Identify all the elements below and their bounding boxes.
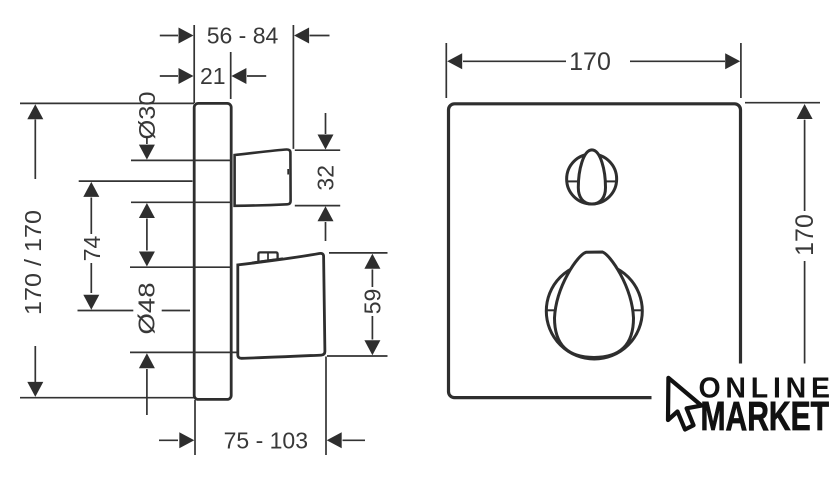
svg-text:Ø30: Ø30 <box>134 92 160 140</box>
select knob (front view, small) <box>566 150 617 204</box>
wire: Ø48 lower arrow shaft <box>146 369 148 415</box>
wire: 170/170 upper shaft <box>34 120 36 180</box>
arrowhead 170/170 down <box>27 382 43 397</box>
dimension 32 <box>295 113 340 241</box>
svg-text:75 - 103: 75 - 103 <box>224 427 308 453</box>
arrowhead Ø48 up (below span) <box>139 353 155 368</box>
wire: shaft between Ø30 and Ø48 arrows <box>146 219 148 251</box>
wire: 21 left arrow shaft <box>160 75 178 77</box>
small knob egg grip <box>578 150 605 204</box>
logo background mask <box>652 364 840 477</box>
wire: 59 bottom reference line <box>327 355 388 357</box>
wire: 32 bottom reference line <box>295 205 340 207</box>
large knob left slot mark <box>547 309 557 311</box>
wire: top reference line left (170/170 top) <box>20 102 194 104</box>
plate (side view escutcheon) <box>194 103 231 399</box>
wire: extension line left of 56-84 <box>193 25 195 103</box>
arrowhead 74 down <box>83 295 99 310</box>
large knob egg grip <box>555 252 634 358</box>
wire: 74 bottom reference line <box>78 310 134 312</box>
svg-text:21: 21 <box>200 63 226 89</box>
svg-text:Ø48: Ø48 <box>134 283 160 335</box>
front plate escutcheon <box>449 104 741 398</box>
dimension 21 <box>160 52 266 99</box>
logo cursor icon <box>668 378 702 430</box>
wire: 170 right upper shaft <box>804 120 806 211</box>
svg-text:56 - 84: 56 - 84 <box>207 23 279 49</box>
arrowhead 32 up <box>318 206 334 221</box>
wire: 74 top reference line <box>79 180 193 182</box>
svg-text:170: 170 <box>791 214 819 256</box>
wire: knob top edge over button base <box>252 259 283 263</box>
wire: extension line right of 56-84 <box>292 25 294 149</box>
wire: 75-103 left arrow shaft <box>159 439 178 441</box>
svg-text:59: 59 <box>360 289 386 315</box>
eco-stop button on knob top <box>258 252 277 262</box>
wire: Ø30 upper arrow shaft <box>146 136 148 144</box>
dimension Ø30 <box>134 92 160 267</box>
arrowhead 170 right up <box>797 104 813 119</box>
dimension 74 <box>79 182 105 310</box>
arrowhead 59 up <box>364 254 380 269</box>
svg-text:170 / 170: 170 / 170 <box>20 210 46 315</box>
arrowhead 170 top left <box>447 53 462 69</box>
dimension 59 <box>327 253 388 356</box>
wire: extension line top of 170 right <box>745 102 820 104</box>
wire: 170/170 lower shaft <box>34 346 36 382</box>
arrowhead 59 down <box>364 340 380 355</box>
wire: 74 upper shaft <box>90 198 92 235</box>
arrowhead 75-103 right <box>327 432 342 448</box>
wire: 170 top dim line right segment <box>630 60 725 62</box>
wire: Ø48 top reference line <box>130 266 232 268</box>
arrowhead 56-84 right <box>294 28 309 44</box>
arrowhead 74 up <box>83 182 99 197</box>
small knob right slot mark <box>605 180 617 182</box>
dimension Ø48 <box>134 283 160 416</box>
arrowhead 56-84 left <box>179 28 194 44</box>
arrowhead 21 left <box>179 68 194 84</box>
wire: 32 top reference line <box>295 149 340 151</box>
large knob right slot mark <box>633 309 643 311</box>
wire: extension line left of 75-103 <box>194 400 196 455</box>
small handle knob (side view) <box>235 149 291 205</box>
thermostat knob (side view, large) <box>238 253 325 358</box>
wire: extension line left of 170 top <box>445 43 447 98</box>
wire: 32 lower shaft <box>325 222 327 241</box>
large knob outer ring <box>546 263 642 359</box>
wire: 170 right lower shaft <box>804 261 806 364</box>
wire: 59 upper shaft <box>371 269 373 287</box>
eco-stop button divider <box>267 253 269 261</box>
wire: 59 lower shaft <box>371 316 373 340</box>
wire: 32 upper shaft <box>325 113 327 134</box>
arrowhead Ø30 up (below span) <box>139 203 155 218</box>
wire: 21 right arrow shaft <box>247 75 266 77</box>
arrowhead 21 right <box>231 68 246 84</box>
wire: 170 top dim line left segment <box>463 60 566 62</box>
wire: 59 top reference line <box>329 252 388 254</box>
wire: extension line right of 75-103 <box>325 357 327 456</box>
arrowhead 32 down <box>318 135 334 150</box>
wire: extension line right of 170 top <box>740 43 742 98</box>
thermostat knob (front view, large) <box>546 252 642 359</box>
wire: bottom reference line left (170/170 bottom) <box>20 397 195 399</box>
dimension 170 top <box>446 43 741 98</box>
arrowhead 170 top right <box>725 53 740 69</box>
wire: 56-84 left arrow shaft <box>160 35 178 37</box>
arrowhead 170/170 up <box>27 104 43 119</box>
wire: 74 lower shaft <box>90 263 92 293</box>
arrowhead 75-103 left <box>179 432 194 448</box>
small knob outer ring <box>567 154 617 204</box>
wire: 75-103 right arrow shaft <box>343 439 366 441</box>
small knob inner edge dash <box>287 169 289 175</box>
wire: Ø30 top reference line <box>131 159 232 161</box>
dimension 170 right <box>745 103 820 364</box>
arrowhead Ø30 down <box>139 145 155 160</box>
wire: Ø30 bottom reference line <box>131 201 232 203</box>
dimension 75-103 <box>159 357 365 456</box>
wire: 56-84 right arrow shaft <box>310 35 330 37</box>
wire: extension line right of 21 <box>230 52 232 99</box>
svg-text:170: 170 <box>569 48 611 76</box>
dimension 170/170 <box>20 104 46 397</box>
arrowhead Ø48 down <box>139 252 155 267</box>
small knob left slot mark <box>566 180 578 182</box>
wire: Ø48 bottom reference line <box>130 351 237 353</box>
svg-text:32: 32 <box>313 165 339 191</box>
svg-text:74: 74 <box>79 236 105 262</box>
dimension 56-84 <box>160 23 330 149</box>
svg-text:MARKET: MARKET <box>701 393 830 439</box>
wire: 74 bottom reference line right part <box>162 310 190 312</box>
